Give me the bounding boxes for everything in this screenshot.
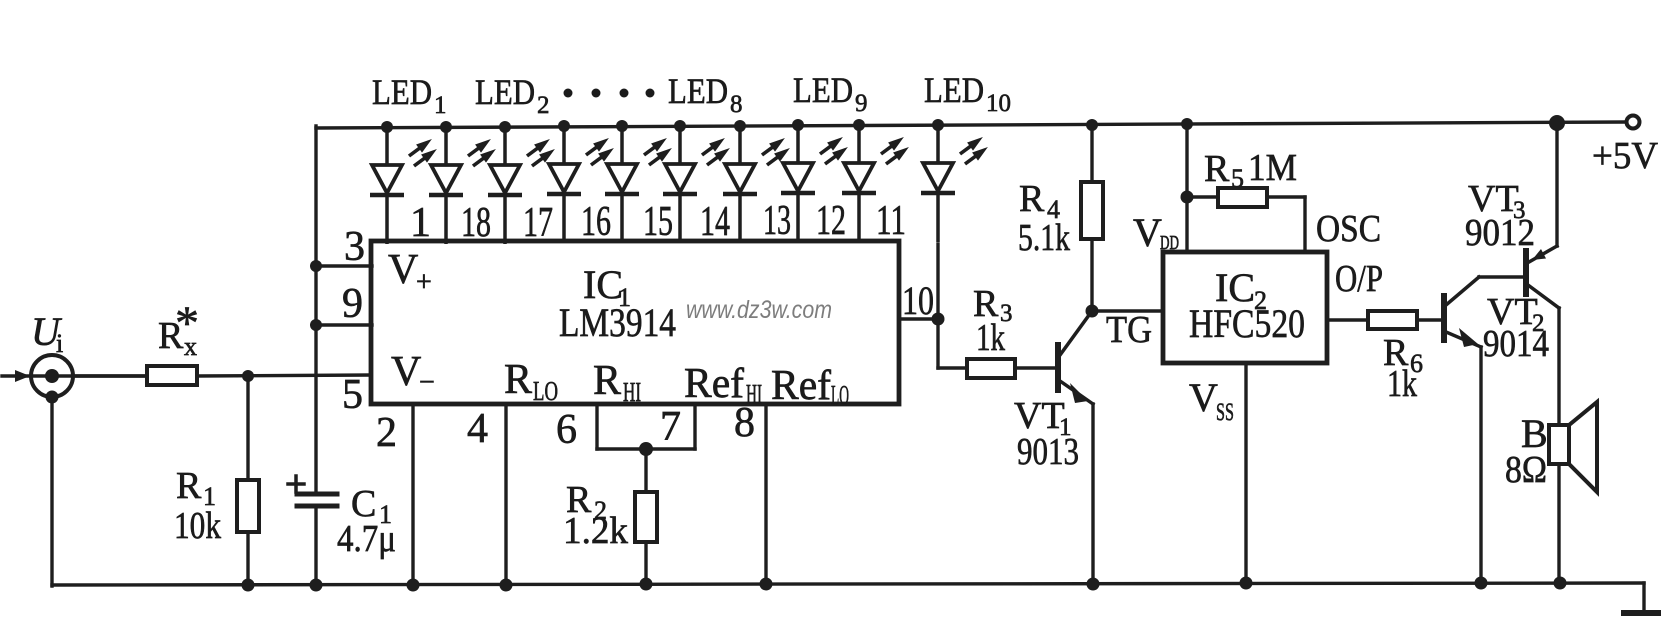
C1 plus sign xyxy=(288,482,304,486)
LED5 xyxy=(616,120,628,132)
svg-text:4: 4 xyxy=(467,406,488,452)
svg-text:14: 14 xyxy=(700,199,730,245)
wire: R2 to ground rail xyxy=(644,542,647,586)
node: R5 junction xyxy=(1181,191,1194,204)
svg-text:*: * xyxy=(175,297,199,350)
wire: R1 to ground rail xyxy=(246,532,249,586)
node: pin4 ground junction xyxy=(500,579,513,592)
wire: rail down to IC2 VDD xyxy=(1185,123,1188,252)
svg-text:8: 8 xyxy=(730,91,743,118)
wire: R3 to VT1 base xyxy=(1015,366,1056,369)
svg-text:R: R xyxy=(176,465,202,507)
svg-text:LED: LED xyxy=(372,72,432,112)
+5V terminal circle xyxy=(1627,116,1640,129)
svg-text:13: 13 xyxy=(763,198,791,244)
wire: junction down to R2 xyxy=(644,449,647,492)
LED8 xyxy=(792,119,804,131)
wire: Rx to IC1 pin5 xyxy=(197,375,371,376)
svg-text:+5V: +5V xyxy=(1592,135,1659,177)
resistor R1 xyxy=(237,480,259,532)
svg-text:12: 12 xyxy=(816,198,846,244)
VT2 collector diagonal xyxy=(1446,277,1479,305)
svg-text:1: 1 xyxy=(434,92,447,119)
op-amp IC1 LM3914 box xyxy=(371,241,899,404)
wire: VT1 emitter down to ground xyxy=(1091,404,1094,585)
wire: pin 9 stub xyxy=(316,323,372,326)
svg-text:5.1k: 5.1k xyxy=(1018,217,1070,259)
node: +5V rail junction xyxy=(1549,115,1565,131)
svg-text:R: R xyxy=(504,357,532,403)
node: pin8 ground junction xyxy=(760,578,773,591)
resistor R2 xyxy=(635,492,657,542)
VT3 collector diagonal xyxy=(1528,285,1559,308)
wire: pin 3 stub xyxy=(316,264,372,267)
svg-text:TG: TG xyxy=(1106,309,1152,351)
LED4 xyxy=(558,120,570,132)
node: R4 top rail junction xyxy=(1086,119,1098,131)
svg-text:1M: 1M xyxy=(1248,147,1297,189)
resistor R5 xyxy=(1218,188,1267,207)
wire: IC1 pin 4 down xyxy=(504,404,507,586)
svg-text:R: R xyxy=(1019,178,1045,220)
wire: IC1 pin 6 down xyxy=(595,404,598,449)
dots between LED2 and LED8 xyxy=(564,89,573,98)
wire: left V+ rail vertical upper part down to C1 xyxy=(314,126,317,494)
node: R1 ground junction xyxy=(242,579,255,592)
wire: ground rail right corner down xyxy=(1642,583,1645,613)
node: speaker ground junction xyxy=(1554,577,1567,590)
svg-text:−: − xyxy=(419,367,435,398)
svg-text:15: 15 xyxy=(643,199,673,245)
node: Ui bottom dot xyxy=(46,391,59,404)
VT2 emitter with arrow xyxy=(1446,332,1481,347)
wire: VT2 emitter down to ground xyxy=(1479,347,1482,585)
ground xyxy=(1624,610,1658,616)
VT2 collector horizontal to VT3 base xyxy=(1479,275,1524,279)
wire: left V+ rail below C1 to ground rail xyxy=(314,506,317,586)
LED3 xyxy=(499,121,511,133)
node: LED10/pin10 junction xyxy=(932,313,945,326)
node: R2 ground junction xyxy=(640,578,653,591)
svg-text:HI: HI xyxy=(623,377,641,407)
resistor Rx xyxy=(147,366,197,385)
wire: pin6-pin7 joining link xyxy=(597,447,695,450)
svg-text:HFC520: HFC520 xyxy=(1189,301,1305,346)
svg-text:9014: 9014 xyxy=(1483,323,1549,365)
VT1 collector xyxy=(1060,311,1092,355)
LED1 xyxy=(381,121,393,133)
svg-text:2: 2 xyxy=(537,92,550,119)
wire: Ui down to ground rail xyxy=(50,397,53,586)
svg-text:10: 10 xyxy=(986,90,1011,117)
transistor Q VT3 base bar xyxy=(1523,251,1529,294)
VT3 emitter diagonal with arrow to base xyxy=(1529,246,1557,262)
LED2 xyxy=(440,121,452,133)
svg-text:R: R xyxy=(1204,148,1230,190)
node: R4/VT1 collector junction xyxy=(1086,305,1099,318)
svg-text:18: 18 xyxy=(461,200,491,246)
svg-text:+: + xyxy=(416,267,432,298)
input terminal Ui circle xyxy=(31,355,73,397)
svg-text:O/P: O/P xyxy=(1335,258,1383,300)
wire: down to IC2 OSC xyxy=(1303,197,1306,252)
node: Ui center dot xyxy=(45,369,59,383)
svg-text:17: 17 xyxy=(523,200,553,246)
svg-text:V: V xyxy=(1189,375,1218,420)
speaker horn xyxy=(1569,402,1597,492)
LED7 xyxy=(734,120,746,132)
wire: IC2 VSS down to ground xyxy=(1244,363,1247,585)
svg-text:i: i xyxy=(56,329,63,358)
wire: R5 to OSC corner xyxy=(1267,195,1305,198)
wire: junction to R5 xyxy=(1187,195,1218,198)
wire: VT3 collector down to speaker xyxy=(1557,308,1560,425)
wire: speaker down to ground xyxy=(1557,464,1560,585)
wire: IC1 pin 10 stub xyxy=(899,317,938,320)
LED10 xyxy=(932,119,944,131)
node: C1 ground junction xyxy=(310,579,323,592)
svg-text:3: 3 xyxy=(344,224,365,270)
wire: IC1 pin 7 down xyxy=(693,404,696,449)
svg-text:SS: SS xyxy=(1216,399,1234,426)
wire: junction down to R1 xyxy=(246,376,249,480)
svg-text:8: 8 xyxy=(734,400,755,446)
svg-text:9012: 9012 xyxy=(1465,212,1535,254)
capacitor C1 plates xyxy=(297,492,337,497)
svg-text:LED: LED xyxy=(793,70,853,110)
wire: rail down to VT3 emitter xyxy=(1555,123,1558,246)
svg-text:LED: LED xyxy=(668,71,728,111)
wire: bottom ground rail xyxy=(52,583,1644,585)
svg-text:8Ω: 8Ω xyxy=(1505,449,1547,491)
svg-text:2: 2 xyxy=(376,410,397,456)
node: VT1 emitter ground junction xyxy=(1087,578,1100,591)
node: VT2 emitter ground junction xyxy=(1475,577,1488,590)
VT1 emitter with arrow xyxy=(1060,381,1093,404)
wire: IC2 O/P to R6 xyxy=(1327,318,1368,321)
svg-text:6: 6 xyxy=(556,407,577,453)
svg-text:1.2k: 1.2k xyxy=(563,510,628,552)
svg-text:LED: LED xyxy=(924,70,984,110)
wire: LED10 cathode down to junction and to R3 level xyxy=(936,244,939,368)
wire: IC1 pin 8 down xyxy=(764,404,767,586)
svg-text:16: 16 xyxy=(581,199,611,245)
IC2 HFC520 box xyxy=(1163,252,1327,363)
svg-text:www.dz3w.com: www.dz3w.com xyxy=(686,296,832,324)
svg-text:OSC: OSC xyxy=(1316,208,1381,250)
svg-text:5: 5 xyxy=(1231,164,1244,193)
svg-text:V: V xyxy=(1133,210,1162,255)
svg-text:V: V xyxy=(388,247,418,293)
svg-text:1: 1 xyxy=(410,200,431,246)
svg-text:5: 5 xyxy=(342,372,363,418)
wire: to R3 xyxy=(938,366,967,369)
svg-text:Ref: Ref xyxy=(771,363,831,409)
node: pin9 junction xyxy=(310,319,322,331)
wire: TG line to IC2 xyxy=(1092,309,1163,312)
node: pin3 junction xyxy=(310,260,322,272)
node: junction input/R1 xyxy=(242,370,254,382)
wire: top +5V supply rail xyxy=(316,122,1626,128)
speaker B driver box xyxy=(1549,425,1569,464)
wire: rail down to R4 xyxy=(1090,124,1093,182)
wire: R6 to VT2 base xyxy=(1417,318,1442,321)
node: pin2 ground junction xyxy=(407,579,420,592)
resistor R6 xyxy=(1368,311,1417,329)
svg-text:4.7μ: 4.7μ xyxy=(337,518,396,560)
svg-text:R: R xyxy=(593,358,621,404)
svg-text:10: 10 xyxy=(902,278,934,323)
LED6 xyxy=(674,120,686,132)
resistor R3 xyxy=(967,359,1015,378)
svg-text:7: 7 xyxy=(660,404,681,450)
wire: IC1 pin 2 down xyxy=(411,404,414,586)
svg-text:V: V xyxy=(391,349,421,395)
svg-text:LO: LO xyxy=(831,380,849,410)
transistor Q VT2 base bar xyxy=(1441,296,1447,340)
svg-text:11: 11 xyxy=(876,198,906,244)
svg-text:10k: 10k xyxy=(174,505,221,547)
svg-text:1k: 1k xyxy=(1387,363,1417,405)
resistor R4 xyxy=(1081,182,1103,239)
svg-text:LO: LO xyxy=(533,376,558,406)
transistor Q VT1 base bar xyxy=(1055,345,1061,390)
svg-text:DD: DD xyxy=(1160,232,1179,254)
svg-text:LED: LED xyxy=(475,72,535,112)
wire: Ui to Rx xyxy=(73,374,147,377)
svg-text:9: 9 xyxy=(342,281,363,327)
input arrow xyxy=(2,374,147,377)
node: VSS ground junction xyxy=(1240,577,1253,590)
svg-text:9013: 9013 xyxy=(1017,431,1079,473)
node: VDD rail junction xyxy=(1181,118,1193,130)
svg-text:LM3914: LM3914 xyxy=(559,300,676,345)
wire: R4 down to collector junction xyxy=(1090,239,1093,311)
svg-text:1k: 1k xyxy=(976,317,1005,359)
LED9 xyxy=(853,119,865,131)
node: pin6/7 junction xyxy=(639,442,653,456)
svg-text:9: 9 xyxy=(855,90,868,117)
